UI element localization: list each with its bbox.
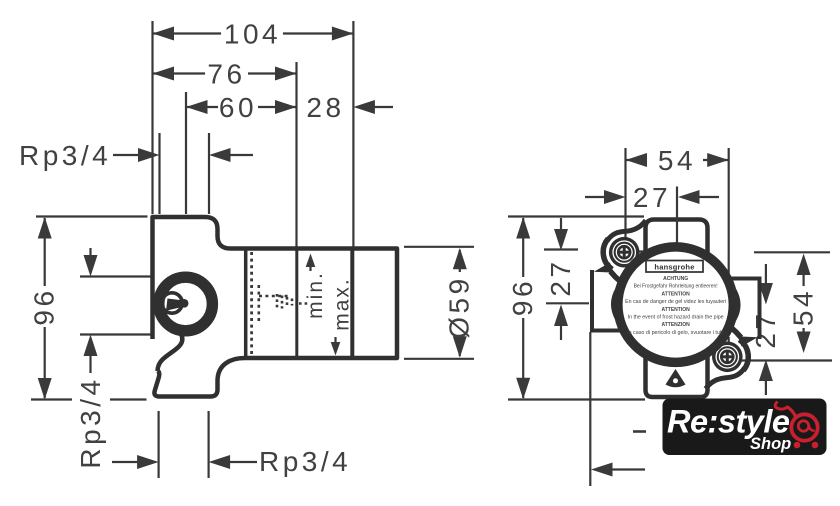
small dash left of logo xyxy=(633,430,646,433)
svg-text:54: 54 xyxy=(658,145,696,176)
extension line x=296.5 (76/60 right) xyxy=(295,62,297,250)
right port arc xyxy=(735,290,739,321)
dimension Ø59 xyxy=(404,247,475,359)
svg-text:ATTENTION: ATTENTION xyxy=(661,307,690,313)
dimension 54 (top) xyxy=(626,145,729,176)
svg-text:ACHTUNG: ACHTUNG xyxy=(663,276,688,282)
dimension Rp3/4 (bottom thread) xyxy=(112,411,351,478)
spindle small ring xyxy=(162,293,182,313)
label max. with arrow xyxy=(331,277,354,355)
svg-text:min.: min. xyxy=(304,271,327,319)
left port arc xyxy=(612,289,616,320)
svg-text:28: 28 xyxy=(306,92,344,123)
dimension 54 (right vertical) xyxy=(788,254,819,354)
cart wheels xyxy=(794,442,801,449)
extension line y=251.5 (upper boss center, right stub) xyxy=(638,250,658,252)
svg-text:In caso di pericolo di gelo, s: In caso di pericolo di gelo, svuotare i … xyxy=(627,330,724,336)
svg-text:96: 96 xyxy=(29,287,60,325)
hidden center dashed xyxy=(299,302,310,304)
valve body fill (side view) xyxy=(153,217,398,397)
warning text xyxy=(625,276,726,336)
divider min/max right xyxy=(350,251,354,357)
corner curve to square xyxy=(607,220,646,241)
extension line x=209 (thread right) xyxy=(208,133,210,214)
spindle wedge xyxy=(166,299,184,311)
flange left tab xyxy=(592,270,627,331)
extension line x=186 (60 left) xyxy=(185,92,187,214)
boss disc xyxy=(609,237,640,268)
spindle pivot dot xyxy=(180,299,189,308)
extension line y=249.5 (upper boss center, left) xyxy=(544,248,578,250)
dimension 27 (right vertical) xyxy=(750,264,781,395)
upper-left wing xyxy=(594,220,646,289)
dimension 96 (left height) xyxy=(29,217,148,400)
partial dimension arrow (cut by logo) xyxy=(591,463,613,477)
svg-text:En cas de danger de gel videz: En cas de danger de gel videz les tuyaut… xyxy=(625,299,726,305)
svg-text:In the event of frost hazard d: In the event of frost hazard drain the p… xyxy=(628,315,724,321)
extension line y=303.3 (circle center, left) xyxy=(546,302,589,304)
extension line y=360.5 (lower boss, right side) xyxy=(738,359,832,361)
extension line y=399.5 (bottom) xyxy=(508,398,645,400)
dimension 27 (left vertical) xyxy=(545,218,576,340)
cart @ symbol xyxy=(775,402,818,449)
cartridge left edge xyxy=(244,251,248,357)
wing outer arc xyxy=(603,239,612,270)
dimension Rp3/4 (left side port) xyxy=(75,248,160,469)
lower-right wing xyxy=(706,320,758,389)
svg-text:104: 104 xyxy=(224,19,281,50)
horn tip xyxy=(594,263,614,273)
svg-text:76: 76 xyxy=(207,59,245,90)
extension line x=159.5 (thread left) xyxy=(158,133,160,214)
svg-text:27: 27 xyxy=(545,258,576,296)
dimension 28 xyxy=(306,92,393,123)
svg-text:Bei Frostgefahr Rohrleitung en: Bei Frostgefahr Rohrleitung entleeren! xyxy=(634,284,718,290)
label min. with arrow xyxy=(304,254,327,319)
dimension 96 (right drawing) xyxy=(507,217,538,399)
hidden arrow cluster (dotted) xyxy=(277,294,292,310)
hansgrohe label box xyxy=(646,261,703,273)
handle ring tail xyxy=(158,334,183,371)
dimension 104 xyxy=(153,19,354,50)
svg-text:Rp3/4: Rp3/4 xyxy=(259,446,351,477)
svg-text:hansgrohe: hansgrohe xyxy=(654,262,694,271)
extension line x=625.5 (upper boss vertical) xyxy=(624,148,626,238)
dimension 27 (top) xyxy=(585,182,719,213)
valve body outline (side view) xyxy=(153,217,398,397)
flange right tab xyxy=(725,279,760,340)
valve ring (side view) xyxy=(159,277,213,331)
svg-text:27: 27 xyxy=(750,310,781,348)
extension line y=216.5 (top) xyxy=(508,215,644,217)
svg-text:27: 27 xyxy=(633,182,671,213)
svg-text:96: 96 xyxy=(507,278,538,316)
svg-text:Rp3/4: Rp3/4 xyxy=(19,140,111,171)
boss rings xyxy=(613,241,635,263)
svg-text:Rp3/4: Rp3/4 xyxy=(75,376,106,468)
lower merge to rim xyxy=(611,272,633,290)
drain pointer xyxy=(666,369,686,387)
svg-text:Shop: Shop xyxy=(750,435,791,453)
bottom-left extension of flange xyxy=(589,332,591,486)
svg-text:ATTENTION: ATTENTION xyxy=(661,291,690,297)
svg-text:ATTENZION: ATTENZION xyxy=(661,322,690,328)
extension line x=353.4 (104/28 right) xyxy=(352,21,354,247)
extension line y=252.3 (upper boss, right side) xyxy=(754,251,830,253)
hidden horizontal dashed xyxy=(259,295,291,298)
hidden spindle dashed line xyxy=(250,252,253,356)
dimension 60 xyxy=(186,92,297,123)
svg-text:Ø59: Ø59 xyxy=(444,275,475,338)
logo box xyxy=(663,399,827,456)
svg-text:54: 54 xyxy=(788,288,819,326)
svg-text:max.: max. xyxy=(331,277,354,331)
center line x=677 xyxy=(676,187,678,249)
divider min/max left xyxy=(295,251,298,357)
dimension 76 xyxy=(153,59,297,90)
extension line x=728.7 (lower boss vertical) xyxy=(728,148,730,274)
svg-text:60: 60 xyxy=(219,92,257,123)
hidden detail dashed xyxy=(257,285,260,323)
extension line x=152.5 (left face) xyxy=(151,21,153,214)
cover circle xyxy=(618,247,734,363)
label Rp3/4 (top thread) xyxy=(19,140,253,171)
plaster box square xyxy=(646,220,708,398)
